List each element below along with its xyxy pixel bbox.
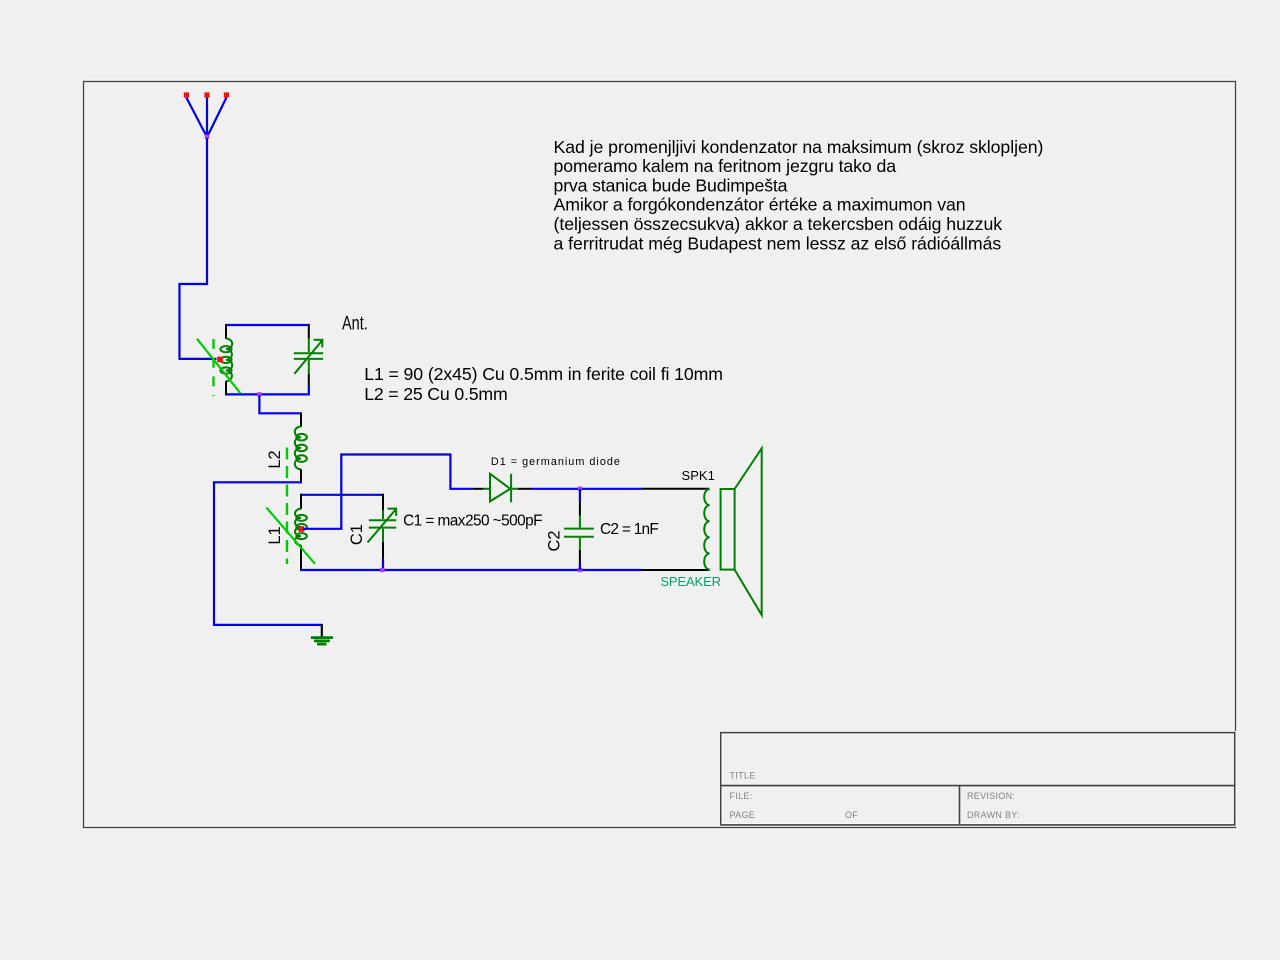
svg-text:OF: OF [845,810,858,820]
svg-text:SPEAKER: SPEAKER [660,574,721,589]
inductor ANT coil (antenna transformer primary) [220,324,232,395]
node C2 top junction [578,487,582,491]
svg-text:DRAWN BY:: DRAWN BY: [967,810,1020,820]
svg-text:TITLE: TITLE [730,771,756,781]
node antenna junction [205,135,209,139]
wire L1 tank bottom to speaker [300,569,641,571]
note L1/L2 winding data [364,364,723,404]
wire diode to speaker [532,488,641,490]
svg-text:L2 = 25 Cu 0.5mm: L2 = 25 Cu 0.5mm [364,384,508,404]
variable arrow through antenna coil [197,339,241,394]
svg-text:prva stanica bude Budimpešta: prva stanica bude Budimpešta [554,175,788,195]
antenna ANT1 [184,92,229,139]
wire tank bottom [225,393,310,395]
speaker SPK1 [704,448,762,615]
svg-text:pomeramo kalem na feritnom j: pomeramo kalem na feritnom jezgru tako d… [554,156,897,176]
wire antenna to tank [180,138,217,359]
ferrite core dashes (antenna coil) [212,339,214,396]
svg-text:PAGE: PAGE [730,810,756,820]
svg-text:Ant.: Ant. [342,313,368,334]
note text block [554,137,1044,254]
svg-text:C2: C2 [546,530,564,551]
node C2 bottom junction [578,568,582,572]
svg-text:L2: L2 [266,450,284,468]
sheet border [84,82,1236,828]
variable arrow through L1 [266,508,315,564]
svg-text:FILE:: FILE: [730,791,753,801]
node C1 bottom junction [380,568,384,572]
wire L1 tank top [300,494,384,496]
svg-text:L1 = 90 (2x45) Cu 0.5mm in fer: L1 = 90 (2x45) Cu 0.5mm in ferite coil f… [364,364,723,384]
wire tank top [225,324,310,326]
svg-text:Kad je promenjljivi kondenzato: Kad je promenjljivi kondenzator na maksi… [554,137,1044,157]
svg-text:(teljessen összecsukva) akkor: (teljessen összecsukva) akkor a tekercsb… [554,214,1003,234]
ground [311,624,333,644]
capacitor C2 [564,489,594,570]
diode D1 [472,474,532,503]
node L1 tap junction [299,526,305,532]
inductor L1 [295,494,307,571]
svg-text:C1: C1 [348,524,366,545]
svg-text:REVISION:: REVISION: [967,791,1015,801]
ferrite core dashes (L2/L1) [286,448,288,565]
capacitor C1 (variable) [368,494,398,571]
svg-text:C2 = 1nF: C2 = 1nF [600,521,659,538]
wire to speaker bottom lead [641,569,710,571]
title block [721,733,1235,825]
node antenna coil junction [217,357,223,363]
node tank tap [257,392,261,396]
svg-text:a ferritrudat még Budapest nem: a ferritrudat még Budapest nem lessz az … [554,233,1002,253]
wire tap to L2 [259,396,301,414]
capacitor trimmer (antenna tank) [294,324,324,395]
inductor L2 [295,412,307,483]
svg-text:C1 = max250 ~500pF: C1 = max250 ~500pF [403,513,542,530]
svg-text:Amikor a forgókondenzátor érté: Amikor a forgókondenzátor értéke a maxim… [554,195,966,215]
svg-text:SPK1: SPK1 [682,468,715,483]
svg-text:D1 = germanium diode: D1 = germanium diode [491,456,620,468]
wire L2 to ground rail [214,482,322,625]
wire to speaker top lead [641,488,710,490]
svg-text:L1: L1 [266,526,284,544]
wire L1 tap to diode [303,455,472,529]
